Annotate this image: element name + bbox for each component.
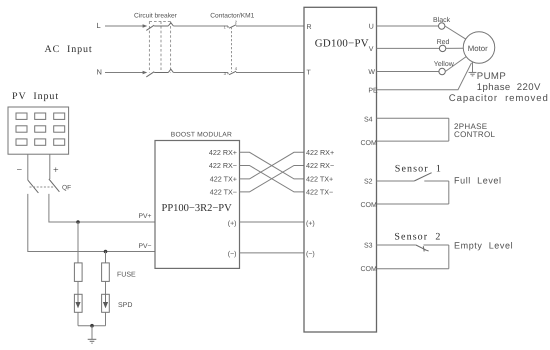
switch QF pole minus xyxy=(28,180,39,193)
inverter U1 box GD100-PV xyxy=(304,7,377,332)
svg-text:W: W xyxy=(368,69,375,76)
svg-text:BOOST MODULAR: BOOST MODULAR xyxy=(171,132,232,139)
wire COM1 run xyxy=(377,140,449,142)
switch QF pole plus xyxy=(49,179,60,192)
svg-text:Capacitor removed: Capacitor removed xyxy=(449,93,549,104)
svg-text:AC Input: AC Input xyxy=(45,44,93,55)
wire S2 run right xyxy=(424,180,449,182)
circuit breaker QF1 dashed enclosure xyxy=(149,21,170,72)
circuit breaker pole L xyxy=(143,23,228,31)
svg-text:SPD: SPD xyxy=(118,302,132,309)
svg-text:PE: PE xyxy=(368,88,378,95)
wire yellow to motor xyxy=(445,57,466,72)
wire 422 crossover TX+ to RX+ xyxy=(240,152,305,179)
terminal ring black xyxy=(439,23,445,29)
wire DC minus link xyxy=(240,252,305,254)
wire branch to fuse F2 xyxy=(105,252,107,263)
wire earth stub xyxy=(91,326,93,339)
wire branch to fuse F1 xyxy=(77,222,79,263)
wire earth bus xyxy=(78,325,106,327)
svg-text:Empty Level: Empty Level xyxy=(454,240,513,250)
SPD arrester 1 xyxy=(74,294,82,312)
svg-text:PP100−3R2−PV: PP100−3R2−PV xyxy=(162,203,233,214)
wire PV plus lead xyxy=(49,154,51,179)
wire 422 crossover RX+ to TX+ xyxy=(240,152,305,179)
wire COM3 run xyxy=(377,268,449,270)
svg-text:422 RX+: 422 RX+ xyxy=(209,148,237,157)
motor M1 xyxy=(463,32,495,64)
svg-text:Circuit breaker: Circuit breaker xyxy=(134,13,178,20)
switch sensor1 blade xyxy=(414,173,431,181)
svg-text:422 TX+: 422 TX+ xyxy=(306,174,333,183)
wire spd1 to earth bus xyxy=(77,312,79,325)
svg-text:Sensor 1: Sensor 1 xyxy=(395,164,442,175)
wire PE run xyxy=(377,63,472,90)
wire fuse2 to spd2 xyxy=(105,281,107,294)
wire PV minus to boost xyxy=(28,194,155,252)
svg-text:N: N xyxy=(97,68,102,77)
terminal ring yellow xyxy=(439,68,445,74)
svg-text:Sensor 2: Sensor 2 xyxy=(394,232,441,243)
wire L-in xyxy=(105,25,145,27)
svg-text:T: T xyxy=(307,70,312,77)
wire N-in xyxy=(105,72,145,74)
wire sensor2 right edge xyxy=(448,245,450,269)
wire sensor1 right edge xyxy=(448,181,450,204)
wire S4 run xyxy=(377,117,449,119)
ground motor earth symbol xyxy=(469,72,477,76)
SPD arrester 2 xyxy=(102,294,110,312)
svg-text:422 TX−: 422 TX− xyxy=(210,187,237,196)
svg-text:1phase 220V: 1phase 220V xyxy=(477,82,541,93)
svg-text:PUMP: PUMP xyxy=(477,71,506,82)
wire S2 run xyxy=(377,180,415,182)
fuse F2 xyxy=(102,263,110,282)
svg-text:COM: COM xyxy=(361,202,378,209)
node junction PV+ xyxy=(76,220,80,224)
wire U to black terminal xyxy=(377,25,439,27)
svg-text:(+): (+) xyxy=(228,219,237,227)
wire S3 run right xyxy=(424,244,449,246)
node junction earth xyxy=(90,324,94,328)
wire PV plus to boost xyxy=(49,194,155,222)
svg-text:U: U xyxy=(369,24,374,31)
node junction PV- xyxy=(104,250,108,254)
wire 422 crossover RX- to TX- xyxy=(240,166,305,192)
wire 2phase right edge xyxy=(448,118,450,141)
wire spd2 to earth bus xyxy=(105,312,107,325)
fuse F1 xyxy=(74,263,82,282)
contactor KM1 pole N xyxy=(228,71,304,75)
svg-text:(−): (−) xyxy=(306,250,315,258)
svg-text:Motor: Motor xyxy=(468,44,488,53)
contactor KM1 dashed link xyxy=(231,27,233,72)
wire motor earth stub xyxy=(472,62,474,72)
switch sensor2 blade NC xyxy=(416,245,429,252)
svg-text:COM: COM xyxy=(361,266,378,273)
svg-text:PV+: PV+ xyxy=(138,213,151,220)
svg-text:COM: COM xyxy=(361,140,378,147)
svg-text:422 RX−: 422 RX− xyxy=(306,161,334,170)
wire fuse1 to spd1 xyxy=(77,281,79,294)
svg-text:422 RX+: 422 RX+ xyxy=(306,148,334,157)
svg-text:S4: S4 xyxy=(364,116,373,123)
boost converter U2 box PP100-3R2-PV xyxy=(155,141,240,269)
svg-text:Full Level: Full Level xyxy=(454,176,502,186)
terminal ring red xyxy=(439,45,445,51)
svg-text:L: L xyxy=(97,21,101,30)
wire 422 crossover TX- to RX- xyxy=(240,166,305,192)
svg-text:422 RX−: 422 RX− xyxy=(209,161,237,170)
svg-text:S2: S2 xyxy=(364,179,373,186)
wire DC plus link xyxy=(240,221,305,223)
wire PV minus lead xyxy=(27,154,29,180)
PV panel array xyxy=(8,107,69,154)
svg-text:GD100−PV: GD100−PV xyxy=(315,37,369,49)
svg-text:V: V xyxy=(369,46,374,53)
svg-text:PV Input: PV Input xyxy=(12,91,59,102)
svg-text:FUSE: FUSE xyxy=(117,272,136,279)
svg-text:+: + xyxy=(53,165,59,176)
svg-text:S3: S3 xyxy=(364,243,373,250)
svg-text:422 TX+: 422 TX+ xyxy=(210,174,237,183)
wire black to motor xyxy=(445,26,466,39)
circuit breaker pole N xyxy=(143,69,228,77)
wire W to yellow terminal xyxy=(377,71,439,73)
svg-text:R: R xyxy=(307,24,312,31)
wire COM2 run xyxy=(377,203,449,205)
switch QF dashed link xyxy=(30,186,55,188)
svg-text:(+): (+) xyxy=(306,219,315,227)
contactor KM1 pole L xyxy=(228,25,304,29)
wire S3 run xyxy=(377,244,416,246)
wire V to red terminal xyxy=(377,47,440,49)
svg-text:PV−: PV− xyxy=(138,243,151,250)
svg-text:Contactor/KM1: Contactor/KM1 xyxy=(210,13,254,20)
ground earth symbol xyxy=(88,339,97,343)
svg-text:422 TX−: 422 TX− xyxy=(306,187,333,196)
svg-text:(−): (−) xyxy=(228,250,237,258)
svg-text:−: − xyxy=(17,165,23,176)
svg-text:QF: QF xyxy=(62,184,71,191)
svg-text:CONTROL: CONTROL xyxy=(454,130,495,139)
wire red to motor xyxy=(446,47,464,49)
